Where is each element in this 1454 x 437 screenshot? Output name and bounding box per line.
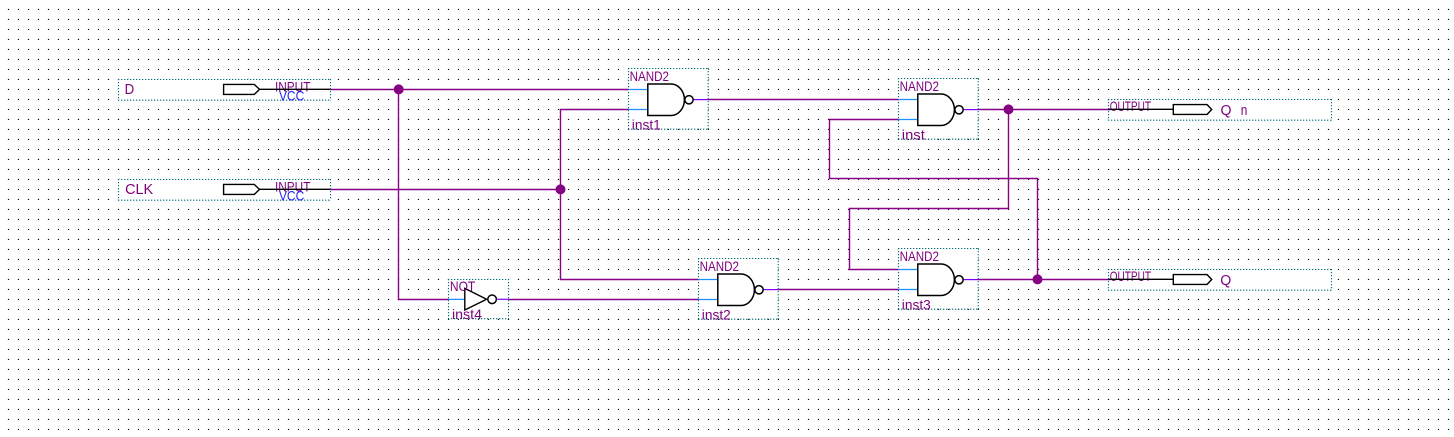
svg-text:NAND2: NAND2	[900, 249, 939, 264]
svg-text:n: n	[1241, 102, 1248, 119]
svg-text:inst1: inst1	[632, 117, 661, 132]
svg-text:VCC: VCC	[279, 188, 304, 203]
svg-text:OUTPUT: OUTPUT	[1110, 269, 1151, 284]
svg-text:NAND2: NAND2	[900, 79, 939, 94]
svg-text:D: D	[125, 81, 135, 98]
svg-text:OUTPUT: OUTPUT	[1110, 99, 1151, 114]
svg-text:inst4: inst4	[452, 307, 482, 322]
svg-text:CLK: CLK	[125, 181, 153, 198]
svg-text:Q: Q	[1221, 102, 1232, 119]
svg-text:NAND2: NAND2	[700, 259, 739, 274]
svg-text:NOT: NOT	[450, 279, 475, 294]
svg-text:inst: inst	[902, 127, 925, 142]
svg-text:inst3: inst3	[902, 297, 931, 312]
svg-text:NAND2: NAND2	[630, 69, 669, 84]
svg-text:Q: Q	[1220, 272, 1231, 289]
svg-text:inst2: inst2	[702, 307, 731, 322]
svg-text:VCC: VCC	[279, 88, 304, 103]
